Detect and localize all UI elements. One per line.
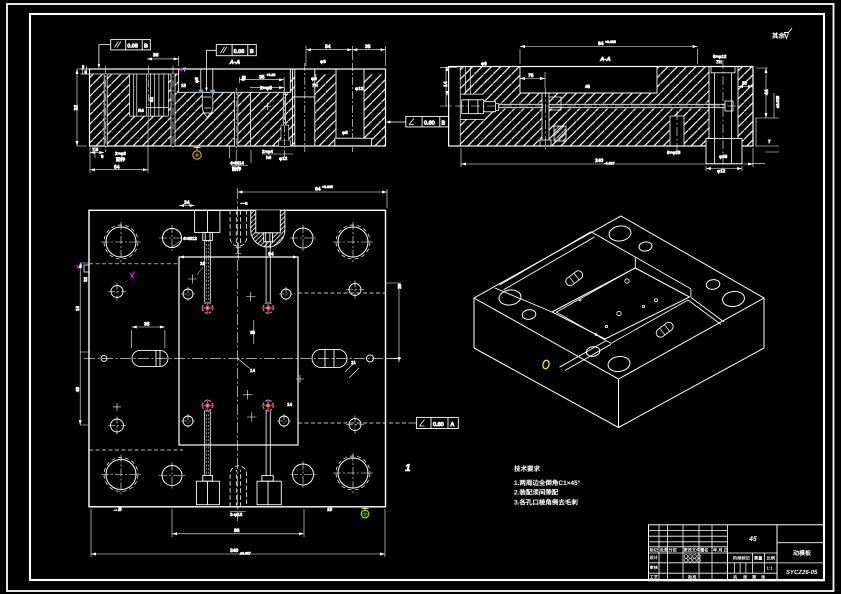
top plate left dim ticks [83, 66, 87, 74]
side hole left upper [111, 286, 123, 298]
top hole big [608, 225, 632, 243]
pocket rectangle [179, 257, 298, 445]
svg-text:SYCZ26-05: SYCZ26-05 [786, 569, 818, 576]
sprue pin lines down [266, 242, 270, 303]
dim 32 left vertical [77, 69, 87, 146]
svg-text:动模板: 动模板 [793, 549, 812, 557]
fcf box 3 [406, 116, 449, 127]
svg-text:〇〇〇〇: 〇〇〇〇 [684, 558, 702, 563]
channel A centerline [304, 63, 306, 152]
pocket outer step lower-right [611, 300, 688, 343]
floor dots [579, 279, 658, 336]
svg-text:35: 35 [144, 322, 150, 328]
pocket corner vertical right [690, 289, 692, 297]
body outline [90, 69, 386, 146]
left hole big [498, 289, 522, 307]
sprue centerline [722, 60, 724, 170]
magenta marker [180, 68, 182, 71]
svg-text:52: 52 [149, 96, 154, 102]
svg-text:年.月.日: 年.月.日 [713, 548, 728, 553]
dim 36 above notch [147, 56, 179, 66]
section body hatch [460, 67, 753, 147]
svg-text:A-A: A-A [599, 56, 611, 63]
svg-text:φ6: φ6 [481, 61, 487, 66]
channel B centerline [351, 63, 353, 152]
dim 54 top [306, 46, 352, 66]
right hole small [706, 279, 721, 290]
blue pads on notch floor [199, 90, 215, 93]
left vertical dim line [80, 263, 90, 425]
svg-text:1: 1 [405, 463, 411, 474]
svg-text:0.05: 0.05 [234, 49, 245, 55]
svg-text:φ9: φ9 [194, 77, 199, 83]
svg-text:22: 22 [742, 81, 748, 86]
iso outer top face [474, 216, 764, 379]
svg-text:A-A: A-A [229, 59, 241, 66]
support pad in channel B [335, 138, 372, 146]
channel A outline [295, 69, 315, 146]
fcf box 4 right of plan [410, 417, 458, 428]
svg-text:64: 64 [315, 187, 321, 193]
svg-text:比例: 比例 [767, 556, 775, 561]
neck bottom left [203, 476, 213, 482]
svg-text:2×φ6: 2×φ6 [115, 151, 126, 156]
svg-text:11: 11 [351, 360, 356, 365]
screw hole below notch cutout [202, 92, 213, 113]
dim 44 right vertical [755, 68, 779, 118]
slot left [132, 350, 168, 366]
svg-text:45: 45 [748, 536, 757, 543]
svg-text:240: 240 [230, 548, 239, 554]
svg-text:4×M12: 4×M12 [183, 236, 197, 241]
small cross in hatch [264, 103, 271, 111]
small cylinder right [670, 116, 684, 146]
bushing pocket internals [130, 74, 169, 116]
iso bottom edges [474, 348, 764, 428]
fcf box 1 leader [99, 45, 111, 67]
svg-text:2×φ4: 2×φ4 [262, 149, 273, 154]
svg-text:7H: 7H [312, 83, 318, 88]
pin foot cutout [540, 140, 551, 146]
block bottom right [257, 481, 281, 505]
dim 240 bottom [91, 509, 385, 557]
hidden line right lower to fcf [298, 422, 410, 424]
phi5 hole B with counterbore [279, 125, 290, 146]
screw shaft band cutout [482, 101, 499, 111]
dim 84+0.025 top [520, 47, 698, 65]
shaft end block [725, 101, 733, 111]
svg-text:54: 54 [114, 165, 120, 171]
hole centerline [172, 66, 174, 151]
pocket corner hole TR [281, 289, 291, 299]
svg-text:240: 240 [595, 158, 604, 164]
svg-text:14: 14 [250, 368, 256, 373]
svg-text:分区: 分区 [669, 548, 678, 553]
svg-text:0.60: 0.60 [433, 422, 444, 428]
plan view center bottom blocks [196, 411, 281, 507]
yellow oval on front face [542, 360, 550, 370]
right block step edge [292, 69, 294, 146]
svg-text:96: 96 [234, 528, 240, 534]
top hole small [638, 241, 652, 252]
sprue cup top [251, 210, 285, 247]
left edge tab [84, 265, 89, 272]
hole above screw [465, 67, 470, 95]
svg-text:阶段标记: 阶段标记 [733, 556, 751, 561]
svg-text:技术要求: 技术要求 [514, 465, 541, 473]
front band lines from pocket bottom [560, 341, 612, 371]
tiny hole right on centerline [367, 355, 374, 362]
svg-text:设计: 设计 [650, 555, 659, 560]
fcf parallelism box 1 [111, 40, 151, 50]
hole A centerline [235, 88, 237, 150]
section body hatch [90, 74, 386, 146]
top plate line [81, 69, 179, 74]
svg-text:—a: —a [241, 201, 249, 206]
ejector guide block top [195, 210, 220, 232]
dim 11 near right [345, 364, 359, 378]
medium hole bottom-left [162, 466, 182, 486]
svg-text:4×M14: 4×M14 [230, 161, 244, 166]
svg-text:24: 24 [184, 200, 190, 206]
dim 22 right top [738, 86, 753, 88]
svg-text:φ12: φ12 [279, 156, 288, 161]
front hole small [586, 346, 601, 357]
dim 35 top [352, 46, 385, 66]
cavity recess cutout [179, 69, 291, 92]
upper-left ridge inner [504, 238, 594, 290]
screw shaft lines [499, 104, 543, 107]
fcf parallelism box 2 [216, 45, 256, 56]
sprue cup cavity [256, 210, 280, 233]
svg-text:54: 54 [325, 44, 331, 50]
svg-text:签名: 签名 [699, 548, 708, 553]
cylinder centerline [676, 111, 678, 152]
svg-text:14: 14 [287, 402, 293, 407]
guide pin centerline [105, 66, 107, 153]
svg-text:16: 16 [200, 261, 206, 266]
material cell divider [728, 525, 778, 581]
svg-text:R4: R4 [138, 108, 144, 113]
dim ticks below cavity holes [230, 146, 285, 164]
screw hole drill tip [204, 113, 210, 118]
vertical centerline [237, 188, 239, 521]
neck bottom right [262, 476, 273, 482]
dim 35+0.02 in cavity [239, 77, 284, 92]
ejector pin cutout [542, 93, 549, 146]
svg-text:14: 14 [443, 81, 449, 87]
svg-text:35: 35 [250, 330, 256, 335]
svg-text:84: 84 [598, 41, 604, 47]
hole right of bushing [171, 74, 175, 146]
svg-text:6×φ25: 6×φ25 [667, 150, 681, 155]
ejector pin markers red-blue [201, 302, 274, 412]
right column rows [777, 543, 824, 563]
pin lines bottom right [266, 411, 270, 476]
plan view center top blocks [195, 210, 285, 302]
dashed sleeve bottom center [230, 466, 247, 507]
sprue foot [706, 139, 742, 164]
svg-text:7.5: 7.5 [92, 147, 99, 152]
dim 14 left vertical [440, 67, 457, 106]
svg-text:B: B [442, 121, 446, 127]
3xphi12 under center [230, 511, 246, 513]
right hole big [722, 290, 746, 308]
dim 7.5 below [90, 146, 104, 158]
counterbore edge line [250, 92, 252, 146]
bushing centerline [148, 66, 150, 121]
lower-right band outer [691, 298, 724, 323]
svg-text:48: 48 [75, 386, 80, 392]
pocket rim [552, 268, 690, 339]
svg-text:其余: 其余 [772, 32, 786, 40]
svg-text:批准: 批准 [688, 575, 697, 580]
screw hole in cavity [201, 69, 213, 113]
dimension arrowheads [76, 45, 768, 556]
svg-text:16: 16 [327, 507, 333, 512]
left hole small [522, 309, 537, 320]
svg-text:配作: 配作 [232, 167, 241, 172]
svg-text:配作: 配作 [116, 157, 125, 162]
datum B flag under section [194, 146, 201, 151]
dim 24 top left [179, 205, 195, 207]
notch outline [520, 66, 657, 93]
svg-text:φ8: φ8 [311, 76, 317, 81]
green-yellow datum below plan [361, 507, 369, 518]
svg-text:0.05: 0.05 [127, 44, 138, 50]
guide hole top-left [106, 227, 136, 257]
side hole left lower [111, 419, 124, 432]
svg-text:φ12: φ12 [717, 169, 726, 174]
ejector guide neck top [203, 232, 213, 240]
plate outline [89, 210, 386, 507]
svg-text:36: 36 [153, 53, 159, 59]
svg-text:35: 35 [259, 75, 265, 81]
svg-text:φ12: φ12 [355, 86, 364, 91]
right vertical dim line [386, 283, 401, 362]
svg-text:B: B [144, 44, 148, 50]
side hole right upper [349, 284, 361, 296]
medium hole top-left [163, 229, 182, 248]
side hole right lower [349, 419, 361, 431]
iso vertical edges [474, 298, 764, 428]
channel B outline [336, 69, 364, 146]
dim 240-0.027 bottom [461, 148, 753, 167]
svg-text:重量: 重量 [754, 556, 763, 561]
svg-text:A: A [451, 422, 455, 428]
cavity outline [179, 69, 291, 92]
svg-text:→B: →B [113, 507, 122, 513]
svg-text:审核: 审核 [650, 565, 659, 570]
svg-text:1.两周边全倒角C1×45°: 1.两周边全倒角C1×45° [514, 479, 581, 487]
slot lower right [655, 321, 675, 339]
band step at left end [589, 232, 595, 238]
plan view dimensions [75, 185, 411, 557]
hole B centerline [283, 88, 285, 150]
pocket corner hole TL [183, 289, 193, 299]
svg-text:+0.025: +0.025 [322, 185, 333, 189]
horizontal centerline [455, 105, 740, 107]
ejector guide block bottom [196, 481, 219, 505]
guide hole top-right [338, 227, 368, 257]
svg-text:44: 44 [764, 89, 770, 95]
body outline [449, 67, 753, 147]
sprue inner lines [715, 73, 732, 139]
guide hole bottom-right [338, 458, 368, 488]
svg-text:0.60: 0.60 [424, 121, 435, 127]
ejector pin [540, 93, 551, 146]
dim 54 bottom [90, 120, 148, 173]
svg-text:标记: 标记 [649, 548, 659, 553]
svg-text:工艺: 工艺 [650, 575, 658, 580]
svg-text:16: 16 [75, 305, 80, 311]
dim 35 vertical near center [253, 320, 255, 344]
lower-right band inner [688, 300, 721, 325]
svg-text:h6: h6 [266, 155, 272, 160]
svg-text:+0.025: +0.025 [605, 40, 616, 44]
hidden line right upper [298, 292, 386, 294]
small cross marks in plan [113, 275, 304, 422]
svg-text:±0.025: ±0.025 [775, 95, 780, 108]
right section dimensions [440, 40, 780, 174]
medium hole top-right [293, 228, 313, 248]
phi5 hole A below cavity [234, 92, 238, 146]
svg-text:2.装配须间隙配: 2.装配须间隙配 [514, 489, 559, 497]
svg-text:32: 32 [83, 276, 88, 282]
screw shaft steps [484, 102, 499, 112]
left section dimensions [74, 40, 386, 173]
dim phi12 small under [706, 166, 742, 171]
svg-text:45: 45 [585, 84, 591, 89]
pocket corner vertical top [634, 258, 636, 268]
svg-text:-0.027: -0.027 [605, 162, 615, 166]
title block outer [649, 525, 825, 581]
small block lower middle [554, 126, 566, 141]
guide bushing pocket cutout [130, 74, 169, 116]
leader M at center [238, 358, 250, 368]
svg-text:φ35: φ35 [719, 154, 728, 159]
sprue pin top [264, 233, 273, 242]
svg-text:3.各孔口棱角倒去毛刺: 3.各孔口棱角倒去毛刺 [514, 499, 578, 507]
dim 2xphi5 [250, 87, 284, 89]
horizontal centerline [84, 357, 403, 359]
dashed sleeve top center [230, 210, 247, 246]
svg-text:3-φ12: 3-φ12 [230, 512, 243, 517]
svg-text:35: 35 [365, 44, 371, 50]
dim 35 above left slot [132, 327, 165, 348]
row dividers middle part [734, 553, 764, 573]
sprue channel lines [709, 66, 738, 139]
front hole big [607, 355, 631, 373]
title block horizontals left grid [649, 531, 778, 574]
rim band inner line [591, 232, 691, 289]
svg-text:+0.02: +0.02 [267, 73, 276, 77]
surface finish note top right [772, 28, 792, 40]
hidden line left upper [89, 263, 179, 265]
pocket corner hole BR [279, 416, 289, 426]
svg-text:7H: 7H [716, 60, 722, 65]
pocket left corner to left band [495, 288, 552, 312]
channel A cutout [295, 69, 315, 146]
svg-text:32: 32 [74, 105, 80, 111]
sprue top collar [711, 67, 735, 73]
dim +-0.025 rotated [773, 93, 775, 118]
svg-text:2×φ5: 2×φ5 [260, 86, 272, 92]
title block verticals left grid [659, 525, 728, 581]
dim 7 right lower [750, 118, 779, 164]
svg-text:64: 64 [268, 252, 274, 258]
pocket floor [556, 271, 630, 344]
channel B cutout [336, 69, 364, 146]
svg-text:75: 75 [528, 73, 534, 79]
svg-text:6×φ12: 6×φ12 [713, 54, 727, 59]
dim 64 top [238, 189, 387, 208]
fcf box 2 leader [207, 50, 217, 90]
guide hole bottom-left [106, 460, 136, 490]
hidden line left lower [89, 449, 183, 451]
guide pin hole [104, 74, 107, 146]
svg-text:±0.027: ±0.027 [240, 552, 251, 556]
4xM12 label with leader top left area [172, 240, 182, 247]
slot upper left [564, 269, 584, 287]
sprue channel cutout [709, 66, 738, 146]
svg-text:B: B [250, 49, 254, 55]
magenta check marks plan left [77, 264, 82, 269]
pocket corner hole BL [183, 416, 193, 426]
screw head [461, 94, 484, 119]
svg-text:15: 15 [181, 83, 187, 88]
pin shaft lines right [549, 104, 726, 107]
svg-text:1:1: 1:1 [767, 566, 774, 571]
cyan marker [183, 68, 186, 72]
slot right [312, 349, 347, 367]
svg-text:φ8: φ8 [342, 130, 348, 135]
screw head recess cutout [461, 94, 484, 119]
pin lines bottom left [205, 411, 211, 476]
collar block at pin junction [549, 97, 561, 110]
tiny hole left on centerline [101, 355, 107, 361]
medium hole bottom-right [293, 464, 314, 485]
svg-text:φ8: φ8 [320, 59, 326, 64]
green datum circle below [196, 118, 198, 120]
fcf box 3 leader [389, 121, 406, 123]
top notch cutout [520, 66, 657, 93]
small cylinder cutout [670, 116, 684, 146]
upper-left ridge outer [500, 233, 589, 285]
dim 75 [520, 72, 545, 88]
ejector pin centerline [545, 88, 547, 152]
ejector pin lines top [205, 240, 211, 302]
dim 96 bottom [172, 509, 304, 537]
